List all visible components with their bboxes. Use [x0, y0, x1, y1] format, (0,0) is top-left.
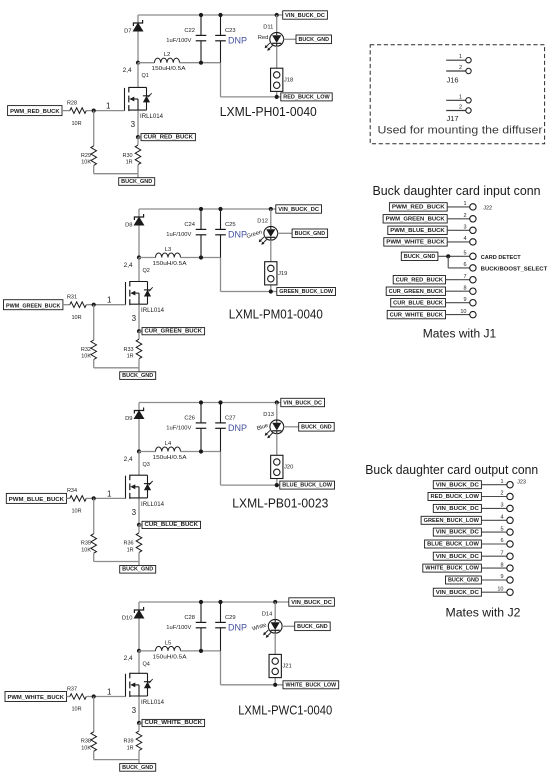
svg-text:VIN_BUCK_DC: VIN_BUCK_DC	[436, 530, 479, 536]
svg-text:BUCK_GND: BUCK_GND	[404, 254, 436, 260]
svg-text:9: 9	[500, 574, 503, 580]
label D9	[125, 416, 132, 422]
wire drain of Q3 to switch node	[138, 452, 140, 476]
junction CUR_RED_BUCK tap	[136, 135, 140, 139]
wire D9 anode to switch node	[138, 403, 140, 452]
svg-text:D13: D13	[263, 412, 274, 418]
label R39	[124, 739, 134, 745]
junction switch node at C24	[199, 255, 203, 259]
net label VIN_BUCK_DC (output conn pin 7)	[433, 552, 481, 560]
svg-text:R31: R31	[67, 295, 77, 301]
svg-text:C29: C29	[225, 615, 236, 621]
svg-text:CUR_RED_BUCK: CUR_RED_BUCK	[396, 278, 443, 284]
pin label 2,4 drain of Q2	[124, 262, 133, 269]
svg-text:D7: D7	[124, 28, 131, 34]
svg-text:VIN_BUCK_DC: VIN_BUCK_DC	[285, 13, 325, 19]
svg-text:1uF/100V: 1uF/100V	[166, 38, 191, 44]
svg-text:2,4: 2,4	[124, 655, 133, 662]
svg-text:PWM_BLUE_BUCK: PWM_BLUE_BUCK	[390, 228, 445, 234]
svg-text:10R: 10R	[71, 315, 81, 321]
label 1R value of R33	[127, 354, 134, 360]
wire top rail to LED D11 anode	[276, 15, 278, 33]
label C26	[184, 416, 195, 422]
svg-text:R36: R36	[124, 541, 134, 547]
ground net label BUCK_GND (input conn pin 5)	[401, 252, 438, 260]
connector J22 pin 9	[470, 300, 476, 306]
diode D9	[134, 408, 143, 419]
connector J21	[269, 654, 281, 677]
junction top rail at LED D14	[273, 600, 277, 604]
svg-text:PWM_GREEN_BUCK: PWM_GREEN_BUCK	[386, 217, 445, 223]
wire output conn pin 9	[481, 579, 506, 581]
label Q3	[143, 462, 150, 468]
pin label 1 gate of Q1	[106, 102, 111, 111]
svg-text:6: 6	[463, 262, 466, 268]
svg-text:R37: R37	[67, 686, 77, 692]
wire inductor L4 to capacitor C27	[181, 451, 221, 453]
label C24	[184, 222, 195, 228]
wire input conn pin 3	[447, 229, 470, 231]
wire LED D13 cathode to connector J20	[276, 434, 278, 456]
wire input conn pin 7	[446, 279, 470, 281]
svg-text:10R: 10R	[71, 707, 81, 713]
pin number 6 of J22	[463, 262, 466, 268]
svg-text:J23: J23	[517, 479, 526, 485]
LED D12 Green	[259, 226, 278, 244]
pin label 1 gate of Q3	[107, 489, 112, 498]
pin number 3 of J23	[500, 503, 503, 509]
svg-text:1: 1	[106, 102, 111, 111]
svg-text:Q1: Q1	[142, 73, 149, 79]
svg-text:R28: R28	[67, 100, 77, 106]
wire output conn pin 1	[481, 484, 506, 486]
svg-text:3: 3	[132, 706, 137, 715]
pin number 5 of J23	[500, 526, 503, 532]
wire LED D11 to BUCK_GND	[284, 38, 297, 40]
wire source of Q3 to CUR_BLUE_BUCK tap	[138, 498, 140, 525]
label R31	[67, 295, 77, 301]
pin label 1 gate of Q2	[107, 296, 112, 305]
net label WHITE_BUCK_LOW (output conn pin 8)	[423, 564, 482, 572]
svg-text:R32: R32	[81, 347, 91, 353]
wire switch node to inductor L3	[139, 257, 156, 259]
wire ground bus R32 to R33	[94, 368, 139, 372]
label R36	[124, 541, 134, 547]
dashed box: diffuser mounting connectors	[370, 45, 544, 144]
svg-text:1: 1	[459, 54, 462, 60]
wire input conn pin 2	[447, 218, 470, 220]
connector J22 pin 7	[470, 277, 476, 283]
svg-text:2,4: 2,4	[124, 262, 133, 269]
label R37	[67, 686, 77, 692]
svg-text:3: 3	[132, 508, 137, 517]
svg-text:R33: R33	[124, 347, 134, 353]
wire PWM_GREEN_BUCK to resistor R31	[63, 304, 70, 306]
label L3	[165, 247, 171, 253]
wire C23 node down to RED_BUCK_LOW rail	[221, 63, 281, 97]
svg-text:D12: D12	[257, 219, 268, 225]
pin number 4 of J22	[463, 236, 466, 242]
connector J17 pin 2	[446, 105, 471, 114]
wire top rail to LED D12 anode	[270, 209, 272, 227]
label LXML-PWC1-0040 LED part number	[238, 703, 332, 718]
inductor L4 150uH/0.5A	[156, 447, 181, 452]
label D8	[125, 222, 132, 228]
junction top rail at LED D12	[269, 207, 273, 211]
connector J22 pin 5	[470, 253, 476, 259]
net label CUR_BLUE_BUCK (input conn pin 9)	[391, 299, 446, 307]
label R29	[81, 153, 91, 159]
wire connector J20 to BLUE_BUCK_LOW rail	[276, 479, 278, 486]
pin number 2 of J23	[500, 491, 503, 497]
wire R31 to gate of Q2	[86, 304, 125, 306]
pin number 7 of J23	[500, 550, 503, 556]
svg-text:10: 10	[460, 309, 466, 315]
svg-text:J19: J19	[278, 271, 287, 277]
resistor R33 1R current sense	[136, 331, 142, 368]
resistor R29 10K gate pulldown	[91, 111, 97, 174]
svg-text:10: 10	[497, 586, 503, 592]
label 10R value of R31	[71, 315, 81, 321]
label R33	[124, 347, 134, 353]
note Mates with J2	[446, 608, 521, 620]
label Q4	[143, 661, 150, 667]
svg-text:D10: D10	[122, 615, 133, 621]
svg-text:VIN_BUCK_DC: VIN_BUCK_DC	[436, 590, 479, 596]
label J18	[284, 78, 293, 84]
label L4	[165, 441, 172, 447]
svg-text:Mates with J1: Mates with J1	[423, 329, 496, 341]
svg-text:BUCK_GND: BUCK_GND	[297, 624, 328, 630]
svg-text:1: 1	[107, 688, 112, 697]
label DNP for C29	[228, 623, 247, 633]
svg-text:VIN_BUCK_DC: VIN_BUCK_DC	[291, 600, 332, 606]
net label PWM_BLUE_BUCK	[6, 493, 66, 503]
capacitor C24 1uF/100V	[196, 209, 207, 258]
ground net label BUCK_GND at LED D11	[296, 35, 332, 44]
capacitor C27 DNP	[215, 403, 226, 452]
connector J22 pin 1	[470, 204, 476, 210]
svg-text:BUCK_GND: BUCK_GND	[122, 373, 153, 379]
svg-text:Red: Red	[258, 35, 269, 41]
label C28	[184, 615, 195, 621]
svg-text:VIN_BUCK_DC: VIN_BUCK_DC	[283, 400, 322, 406]
label D13	[263, 412, 274, 418]
net label PWM_RED_BUCK (input conn pin 1)	[389, 203, 447, 211]
wire LED D14 to BUCK_GND	[282, 625, 295, 627]
label D7	[124, 28, 131, 34]
wire inductor L3 to capacitor C25	[181, 257, 221, 259]
svg-text:CUR_GREEN_BUCK: CUR_GREEN_BUCK	[145, 328, 203, 334]
svg-text:BUCK_GND: BUCK_GND	[295, 231, 326, 237]
connector J22 pin 10	[470, 311, 476, 317]
svg-text:Used for mounting the diffuser: Used for mounting the diffuser	[378, 125, 543, 137]
capacitor C22 1uF/100V	[196, 15, 207, 63]
svg-text:CUR_WHITE_BUCK: CUR_WHITE_BUCK	[390, 312, 443, 318]
wire C29 node down to WHITE_BUCK_LOW rail	[221, 651, 284, 685]
svg-text:DNP: DNP	[228, 36, 247, 46]
svg-text:PWM_RED_BUCK: PWM_RED_BUCK	[10, 109, 60, 115]
svg-text:9: 9	[463, 297, 466, 303]
wire inductor L5 to capacitor C29	[181, 650, 221, 652]
wire output conn pin 10	[481, 591, 506, 593]
capacitor C26 1uF/100V	[196, 403, 207, 452]
wire output conn pin 8	[481, 567, 506, 569]
connector J23 pin 7	[507, 553, 513, 559]
junction GREEN_BUCK_LOW at connector J19	[269, 289, 273, 293]
connector J22 pin 4	[470, 239, 476, 245]
connector J17 pin 1	[446, 94, 471, 103]
wire BUCK_GND to J22 pin 5	[438, 255, 470, 257]
wire D7 anode to switch node	[137, 15, 139, 63]
svg-text:VIN_BUCK_DC: VIN_BUCK_DC	[436, 554, 479, 560]
label Green colour of D12	[246, 229, 263, 240]
junction RED_BUCK_LOW at connector J18	[275, 95, 279, 99]
connector J22 pin 8	[470, 288, 476, 294]
svg-text:2: 2	[500, 491, 503, 497]
net label GREEN_BUCK_LOW	[277, 288, 336, 296]
label C22	[184, 28, 195, 34]
net label VIN_BUCK_DC (BLUE block)	[281, 398, 325, 406]
net label RED_BUCK_LOW	[281, 93, 332, 101]
net label PWM_BLUE_BUCK (input conn pin 3)	[388, 226, 447, 234]
svg-text:3: 3	[132, 314, 137, 323]
ground net label BUCK_GND (GREEN block)	[120, 372, 156, 380]
svg-text:VIN_BUCK_DC: VIN_BUCK_DC	[278, 207, 319, 213]
wire C25 node down to GREEN_BUCK_LOW rail	[221, 258, 277, 292]
svg-text:C24: C24	[184, 222, 195, 228]
pin label 2,4 drain of Q1	[123, 67, 132, 74]
svg-text:PWM_WHITE_BUCK: PWM_WHITE_BUCK	[386, 240, 445, 246]
label IRLL014 value of Q3	[141, 502, 165, 508]
label J22	[483, 205, 492, 211]
inductor L5 150uH/0.5A	[156, 646, 181, 651]
svg-text:PWM_BLUE_BUCK: PWM_BLUE_BUCK	[9, 497, 64, 503]
net label CUR_WHITE_BUCK	[139, 719, 205, 726]
wire switch node to inductor L4	[139, 451, 156, 453]
svg-text:1: 1	[500, 479, 503, 485]
ground net label BUCK_GND at LED D14	[295, 622, 331, 631]
resistor R39 1R current sense	[136, 723, 142, 760]
svg-text:LXML-PWC1-0040: LXML-PWC1-0040	[238, 703, 332, 718]
svg-text:2,4: 2,4	[124, 456, 133, 463]
svg-text:CUR_GREEN_BUCK: CUR_GREEN_BUCK	[389, 289, 443, 295]
label 1uF/100V value of C22	[166, 38, 191, 44]
label LXML-PH01-0040 LED part number	[220, 104, 317, 119]
svg-text:2: 2	[459, 65, 462, 71]
net label PWM_GREEN_BUCK (input conn pin 2)	[383, 215, 447, 223]
wire input conn pin 4	[447, 241, 470, 243]
wire switch node to inductor L2	[138, 62, 155, 64]
capacitor C28 1uF/100V	[196, 602, 207, 651]
pin number 5 of J22	[463, 251, 466, 257]
label R28	[67, 100, 77, 106]
wire top rail VIN_BUCK_DC net (BLUE block)	[139, 402, 281, 404]
net label PWM_WHITE_BUCK	[5, 692, 67, 702]
svg-text:DNP: DNP	[228, 423, 247, 433]
transistor Q3 IRLL014 N-channel MOSFET	[126, 475, 153, 499]
wire output conn pin 6	[481, 543, 506, 545]
connector J19	[265, 262, 277, 285]
svg-text:LXML-PM01-0040: LXML-PM01-0040	[229, 307, 323, 322]
connector J23 pin 2	[507, 493, 513, 499]
svg-text:C28: C28	[184, 615, 195, 621]
svg-text:PWM_WHITE_BUCK: PWM_WHITE_BUCK	[8, 695, 65, 701]
junction gate node / R35	[92, 496, 96, 500]
svg-text:C26: C26	[184, 416, 195, 422]
junction switch node at C26	[199, 449, 203, 453]
wire source of Q2 to CUR_GREEN_BUCK tap	[138, 305, 140, 332]
label D14	[262, 612, 273, 618]
wire ground bus R29 to R30	[94, 174, 138, 178]
label LXML-PM01-0040 LED part number	[229, 307, 323, 322]
wire connector J18 to RED_BUCK_LOW rail	[276, 91, 278, 97]
svg-text:1R: 1R	[127, 354, 134, 360]
net label BLUE_BUCK_LOW (output conn pin 6)	[425, 540, 482, 548]
wire output conn pin 5	[481, 531, 506, 533]
net label CUR_RED_BUCK (input conn pin 7)	[393, 276, 445, 284]
label C27	[225, 416, 236, 422]
capacitor C29 DNP	[215, 602, 226, 651]
label D10	[122, 615, 133, 621]
label DNP for C23	[228, 36, 247, 46]
wire ground bus R38 to R39	[94, 760, 139, 764]
svg-text:4: 4	[463, 236, 466, 242]
resistor R36 1R current sense	[136, 525, 142, 562]
pin label 3 source of Q1	[131, 120, 136, 129]
svg-text:D14: D14	[262, 612, 273, 618]
label R38	[81, 739, 91, 745]
wire R34 to gate of Q3	[86, 497, 125, 499]
label 1uF/100V value of C26	[166, 426, 191, 432]
net label VIN_BUCK_DC (WHITE block)	[289, 598, 335, 606]
wire top rail VIN_BUCK_DC net (RED block)	[138, 14, 283, 16]
note Mates with J1	[423, 329, 496, 341]
pin number 9 of J23	[500, 574, 503, 580]
junction top rail at LED D13	[275, 400, 279, 404]
svg-text:8: 8	[500, 562, 503, 568]
svg-text:1R: 1R	[127, 547, 134, 553]
connector J16 pin 1	[446, 54, 471, 63]
wire R37 to gate of Q4	[86, 696, 125, 698]
svg-text:Q4: Q4	[143, 661, 150, 667]
junction gate node / R29	[92, 109, 96, 113]
pin number 10 of J23	[497, 586, 503, 592]
svg-text:BUCK/BOOST_SELECT: BUCK/BOOST_SELECT	[481, 266, 548, 272]
wire PWM_BLUE_BUCK to resistor R34	[67, 497, 70, 499]
svg-text:IRLL014: IRLL014	[141, 700, 165, 706]
svg-text:WHITE_BUCK_LOW: WHITE_BUCK_LOW	[286, 682, 337, 688]
svg-text:CUR_BLUE_BUCK: CUR_BLUE_BUCK	[393, 301, 443, 307]
pin number 3 of J22	[463, 225, 466, 231]
svg-text:PWM_RED_BUCK: PWM_RED_BUCK	[392, 205, 445, 211]
svg-text:LXML-PH01-0040: LXML-PH01-0040	[220, 104, 317, 119]
heading Buck daughter card input conn	[373, 183, 541, 198]
svg-text:BLUE_BUCK_LOW: BLUE_BUCK_LOW	[427, 542, 479, 548]
label 10K value of R35	[81, 547, 91, 553]
label 10R value of R37	[71, 707, 81, 713]
svg-text:1uF/100V: 1uF/100V	[166, 625, 191, 631]
label LXML-PB01-0023 LED part number	[232, 496, 328, 511]
pin label 2,4 drain of Q3	[124, 456, 133, 463]
label Blue colour of D13	[256, 423, 269, 432]
label 10K value of R38	[81, 746, 91, 752]
svg-text:GREEN_BUCK_LOW: GREEN_BUCK_LOW	[424, 518, 479, 524]
net label BUCK_GND (output conn pin 9)	[446, 576, 482, 584]
LED D13 Blue	[265, 420, 284, 438]
svg-text:5: 5	[500, 526, 503, 532]
pin number 10 of J22	[460, 309, 466, 315]
svg-text:R38: R38	[81, 739, 91, 745]
net label CUR_RED_BUCK	[138, 134, 195, 141]
svg-text:Q3: Q3	[143, 462, 150, 468]
label R34	[67, 488, 77, 494]
svg-text:150uH/0.5A: 150uH/0.5A	[153, 261, 187, 267]
label L5	[165, 640, 171, 646]
diode D8	[134, 214, 143, 225]
label IRLL014 value of Q2	[141, 308, 165, 314]
wire drain of Q2 to switch node	[138, 258, 140, 282]
label R35	[81, 541, 91, 547]
label 10R value of R34	[71, 509, 81, 515]
LED D14 White	[263, 619, 282, 637]
svg-text:2: 2	[463, 213, 466, 219]
wire drain of Q1 to switch node	[137, 63, 139, 88]
svg-text:L4: L4	[165, 441, 172, 447]
label 1uF/100V value of C24	[166, 232, 191, 238]
svg-text:8: 8	[463, 285, 466, 291]
wire top rail to LED D13 anode	[276, 403, 278, 421]
resistor R34 10R	[70, 496, 87, 502]
junction switch node at C22	[199, 61, 203, 65]
svg-text:BUCK_GND: BUCK_GND	[301, 425, 332, 431]
label J20	[284, 465, 293, 471]
svg-text:Q2: Q2	[143, 268, 150, 274]
svg-text:10K: 10K	[81, 160, 91, 166]
label C23	[225, 28, 236, 34]
svg-text:R29: R29	[81, 153, 91, 159]
label 10K value of R29	[81, 160, 91, 166]
svg-text:GREEN_BUCK_LOW: GREEN_BUCK_LOW	[279, 289, 333, 295]
wire output conn pin 3	[481, 507, 506, 509]
svg-text:CARD DETECT: CARD DETECT	[481, 255, 521, 261]
svg-text:R39: R39	[124, 739, 134, 745]
net label CUR_GREEN_BUCK	[139, 328, 205, 335]
connector J23 pin 1	[507, 482, 513, 488]
label 10R value of R28	[71, 121, 81, 127]
connector J22 pin 3	[470, 227, 476, 233]
label 150uH/0.5A value of L4	[153, 455, 187, 461]
pin number 1 of J22	[463, 201, 466, 207]
pin label 3 source of Q2	[132, 314, 137, 323]
wire R28 to gate of Q1	[86, 110, 124, 112]
label J19	[278, 271, 287, 277]
inductor L3 150uH/0.5A	[156, 253, 181, 258]
label 10K value of R32	[81, 354, 91, 360]
label CARD DETECT	[481, 255, 521, 261]
label White colour of D14	[252, 622, 268, 632]
wire ground bus R35 to R36	[94, 562, 139, 566]
pin label 3 source of Q4	[132, 706, 137, 715]
pin label 2,4 drain of Q4	[124, 655, 133, 662]
wire top rail VIN_BUCK_DC net (GREEN block)	[139, 208, 276, 210]
label D12	[257, 219, 268, 225]
svg-text:3: 3	[131, 120, 136, 129]
ground net label BUCK_GND at LED D13	[299, 423, 335, 432]
label C25	[225, 222, 236, 228]
svg-text:Buck daughter card output conn: Buck daughter card output conn	[365, 462, 538, 477]
svg-text:CUR_RED_BUCK: CUR_RED_BUCK	[144, 134, 194, 140]
